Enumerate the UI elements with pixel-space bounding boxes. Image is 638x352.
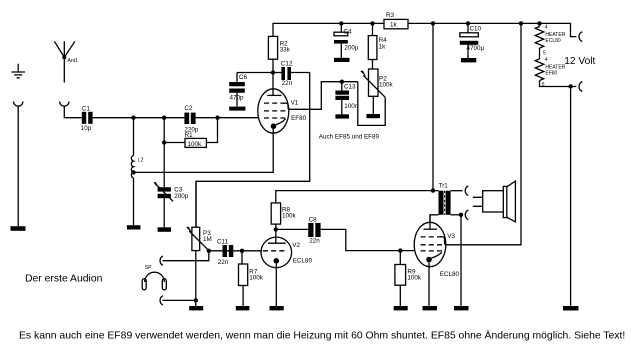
wire supply to Tr1: [432, 23, 434, 190]
node V2 anode: [274, 227, 278, 231]
ground bar (C6): [229, 107, 245, 111]
svg-text:V1: V1: [291, 99, 299, 106]
svg-text:C13: C13: [344, 83, 356, 90]
wire 12V minus to ground: [570, 87, 572, 307]
svg-text:5: 5: [543, 51, 546, 57]
heater resistor ECL80: [535, 23, 543, 59]
node Tr1 secondary ground: [459, 213, 463, 217]
svg-text:R3: R3: [386, 12, 395, 19]
ground bar (C3): [158, 227, 171, 232]
connector socket 12V minus: [579, 82, 582, 92]
svg-text:C10: C10: [470, 26, 482, 33]
node Tr1 supply: [431, 21, 435, 25]
wire L2 to ground: [133, 178, 135, 225]
capacitor C10 electrolytic: [460, 23, 479, 58]
node V3 g2 feed: [519, 21, 523, 25]
node heater chain: [537, 21, 541, 25]
svg-text:EF80: EF80: [545, 71, 557, 77]
connector socket 12V plus: [579, 32, 582, 42]
capacitor C11: [223, 245, 234, 257]
capacitor C6: [229, 82, 245, 107]
heater resistor EF80: [535, 59, 576, 87]
tube V2 ECL80 triode: [261, 237, 292, 306]
wire C8 to V3 grid: [321, 229, 415, 250]
wire antenna socket to C1: [64, 112, 82, 118]
wire C1 to C2: [93, 117, 185, 119]
capacitor C3 variable: [153, 182, 173, 227]
svg-text:200p: 200p: [174, 193, 189, 200]
svg-text:EF80: EF80: [291, 115, 307, 122]
node R1 left: [162, 140, 166, 144]
antenna Ant1: [54, 41, 75, 82]
capacitor C13: [335, 82, 349, 115]
ground bar (V3 cathode): [423, 306, 438, 310]
connector socket (antenna): [60, 102, 69, 113]
tube V3 ECL80 pentode: [414, 215, 446, 306]
resistor R9: [395, 251, 406, 306]
resistor R4: [368, 23, 377, 69]
ground bar (earth wire): [11, 226, 26, 231]
tube V1 EF80: [258, 89, 290, 133]
earth symbol top left: [11, 64, 25, 78]
svg-text:100k: 100k: [249, 275, 264, 282]
node Tr1 left: [431, 188, 435, 192]
svg-text:R1: R1: [185, 132, 194, 139]
node R4: [370, 21, 374, 25]
connector socket speaker top: [465, 186, 468, 196]
ground bar (C10): [461, 58, 476, 62]
svg-text:C1: C1: [82, 106, 91, 113]
svg-text:100k: 100k: [379, 81, 394, 88]
svg-text:ECL80: ECL80: [440, 271, 460, 278]
wire node to L2: [133, 118, 135, 156]
node C13: [340, 80, 344, 84]
node R9: [398, 248, 402, 252]
connector socket SP top: [160, 256, 163, 265]
capacitor C1: [82, 112, 93, 124]
svg-text:4: 4: [545, 25, 548, 31]
ground bar (L2): [127, 225, 140, 229]
svg-text:200µ: 200µ: [344, 44, 359, 51]
wire P2 wiper to C13 node: [358, 82, 385, 126]
svg-text:L2: L2: [138, 158, 144, 164]
svg-text:22n: 22n: [309, 238, 320, 245]
svg-text:Tr1: Tr1: [439, 183, 449, 190]
svg-text:12 Volt: 12 Volt: [564, 56, 595, 67]
node P3 wiper: [207, 249, 211, 253]
wire anode node to C8: [276, 228, 308, 230]
svg-text:Es kann auch eine EF89 verwend: Es kann auch eine EF89 verwendet werden,…: [19, 330, 625, 342]
node L2 top: [131, 116, 135, 120]
svg-text:Auch EF85 und EF89: Auch EF85 und EF89: [319, 134, 380, 141]
wire V1 g2 to C13 node: [289, 82, 358, 110]
svg-text:C6: C6: [239, 74, 248, 81]
svg-text:100n: 100n: [344, 103, 359, 110]
wire Tr1 secondary to ground: [460, 215, 462, 306]
wire node to C6 and C12: [237, 73, 281, 96]
svg-text:ECL80: ECL80: [293, 257, 313, 264]
svg-text:4: 4: [545, 57, 548, 63]
resistor R8: [271, 203, 280, 243]
connector socket speaker bottom: [465, 210, 468, 220]
connector socket SP bottom: [160, 296, 163, 305]
wire R8 top rail to Tr1: [276, 191, 439, 203]
resistor R7: [239, 251, 248, 306]
svg-text:Ant1: Ant1: [68, 58, 79, 64]
svg-text:470p: 470p: [230, 95, 245, 102]
svg-text:22n: 22n: [218, 259, 229, 266]
wire C2 to V1 grid: [196, 117, 258, 119]
svg-text:C2: C2: [184, 105, 193, 112]
top supply rail: [273, 23, 384, 36]
speaker: [473, 181, 516, 222]
capacitor C4 electrolytic: [334, 23, 348, 57]
node C2 left: [162, 116, 166, 120]
node C10: [466, 21, 470, 25]
svg-text:1M: 1M: [203, 236, 212, 243]
node anode V1: [271, 70, 275, 74]
wire C12 to P3: [196, 73, 310, 228]
wire V2 grid: [209, 250, 262, 252]
resistor R3: [384, 19, 408, 28]
node SP return: [194, 298, 198, 302]
potentiometer P3: [186, 181, 209, 306]
svg-text:100k: 100k: [407, 275, 422, 282]
inductor L2: [131, 156, 133, 178]
wire L2 tap to V1 cathode: [134, 126, 274, 172]
node 12V minus: [568, 84, 572, 88]
svg-text:V2: V2: [292, 242, 300, 249]
svg-text:5: 5: [542, 82, 545, 88]
svg-text:100k: 100k: [282, 212, 297, 219]
wire SP bottom to P3 ground: [163, 299, 196, 301]
svg-text:C12: C12: [281, 61, 293, 68]
svg-text:Der erste Audion: Der erste Audion: [25, 274, 103, 285]
svg-text:SP: SP: [145, 265, 152, 271]
svg-text:33k: 33k: [280, 46, 291, 53]
headphone symbol: [142, 272, 166, 290]
svg-text:ECL80: ECL80: [545, 38, 561, 44]
ground bar (P3): [189, 306, 203, 310]
connector socket (earth): [14, 102, 23, 111]
svg-text:22n: 22n: [282, 80, 293, 87]
svg-text:100k: 100k: [188, 141, 203, 148]
capacitor C8: [308, 223, 320, 237]
ground bar (12V): [563, 306, 579, 311]
wire P3 wiper to SP socket: [163, 251, 209, 261]
node R7: [240, 249, 244, 253]
capacitor C12: [281, 67, 309, 80]
node R1 right: [215, 116, 219, 120]
wire earth socket to ground: [17, 110, 19, 226]
svg-text:10p: 10p: [81, 125, 92, 132]
svg-text:1k: 1k: [390, 21, 398, 28]
potentiometer P2: [360, 69, 385, 114]
ground bar (Tr1 secondary): [454, 306, 469, 310]
ground bar (V2 cathode): [270, 306, 284, 310]
ground bar (R7): [236, 306, 250, 310]
ground bar (R9): [394, 306, 408, 310]
ground bar (C4): [334, 58, 350, 62]
svg-text:C4: C4: [344, 29, 353, 36]
node C4: [339, 21, 343, 25]
node L2 tap: [131, 170, 135, 174]
svg-text:4700µ: 4700µ: [467, 45, 485, 52]
ground bar (C13): [335, 114, 349, 118]
svg-text:C8: C8: [309, 216, 318, 223]
transformer Tr1: [430, 191, 463, 223]
resistor R1: [164, 118, 217, 148]
resistor R2: [268, 36, 277, 72]
svg-text:1k: 1k: [379, 43, 387, 50]
svg-text:V3: V3: [447, 233, 455, 240]
wire C2 node down to R1 and C3: [163, 118, 165, 187]
wire supply to V3 g2: [446, 23, 521, 244]
ground bar (P2): [367, 114, 381, 118]
capacitor C2: [184, 113, 195, 124]
svg-text:C11: C11: [217, 238, 229, 245]
